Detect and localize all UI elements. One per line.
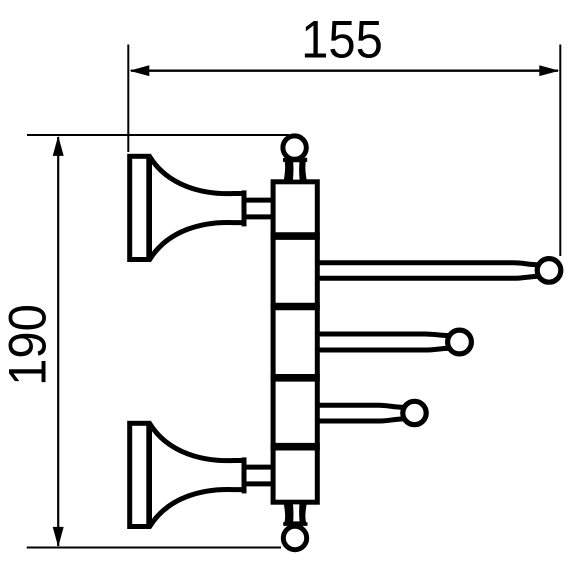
bottom finial neck slot [293,504,300,521]
arrowhead top of 190 [53,136,64,156]
extension line bottom horizontal [27,547,281,549]
top finial neck [284,158,307,180]
arm 3 lower line [317,419,404,421]
trumpet bell top [150,156,245,259]
svg-text:155: 155 [301,10,383,69]
post body [273,182,317,502]
wall plate top [130,156,149,259]
arm 2 ball [448,330,472,354]
arm 1 ball [537,259,561,283]
bottom finial ball [283,526,306,549]
top finial neck slot [293,162,300,179]
arrowhead bottom of 190 [53,527,64,547]
extension line right vertical [559,45,561,257]
bottom finial neck [284,504,307,525]
top finial collar [283,158,307,162]
shaft bottom upper line [246,465,274,470]
arrowhead left of 155 [129,65,149,76]
arm 1 upper line [317,263,539,265]
arm 1 lower line [317,276,539,278]
svg-text:190: 190 [0,304,57,386]
shaft top lower line [246,214,274,219]
wall plate bottom [130,423,149,526]
dimension line 155 [131,70,558,72]
trumpet bell bottom [150,423,245,527]
arm 2 lower line [317,348,450,350]
arm 3 ball [403,401,426,424]
arm 3 upper line [317,405,404,407]
post divider band 3 [271,374,320,382]
post divider band 1 [271,232,320,240]
post divider band 4 [271,443,320,451]
arm 2 upper line [317,334,450,336]
shaft top upper line [246,198,274,203]
post divider band 2 [271,303,320,311]
shaft bottom lower line [246,481,274,486]
top finial ball [283,136,306,159]
bottom finial collar [283,522,307,526]
extension line top horizontal [27,134,289,136]
extension line left vertical [127,45,129,153]
dimension line 190 [57,137,59,546]
trumpet mouth ring bottom [242,457,247,493]
arrowhead right of 155 [539,65,559,76]
trumpet mouth ring top [242,190,247,226]
